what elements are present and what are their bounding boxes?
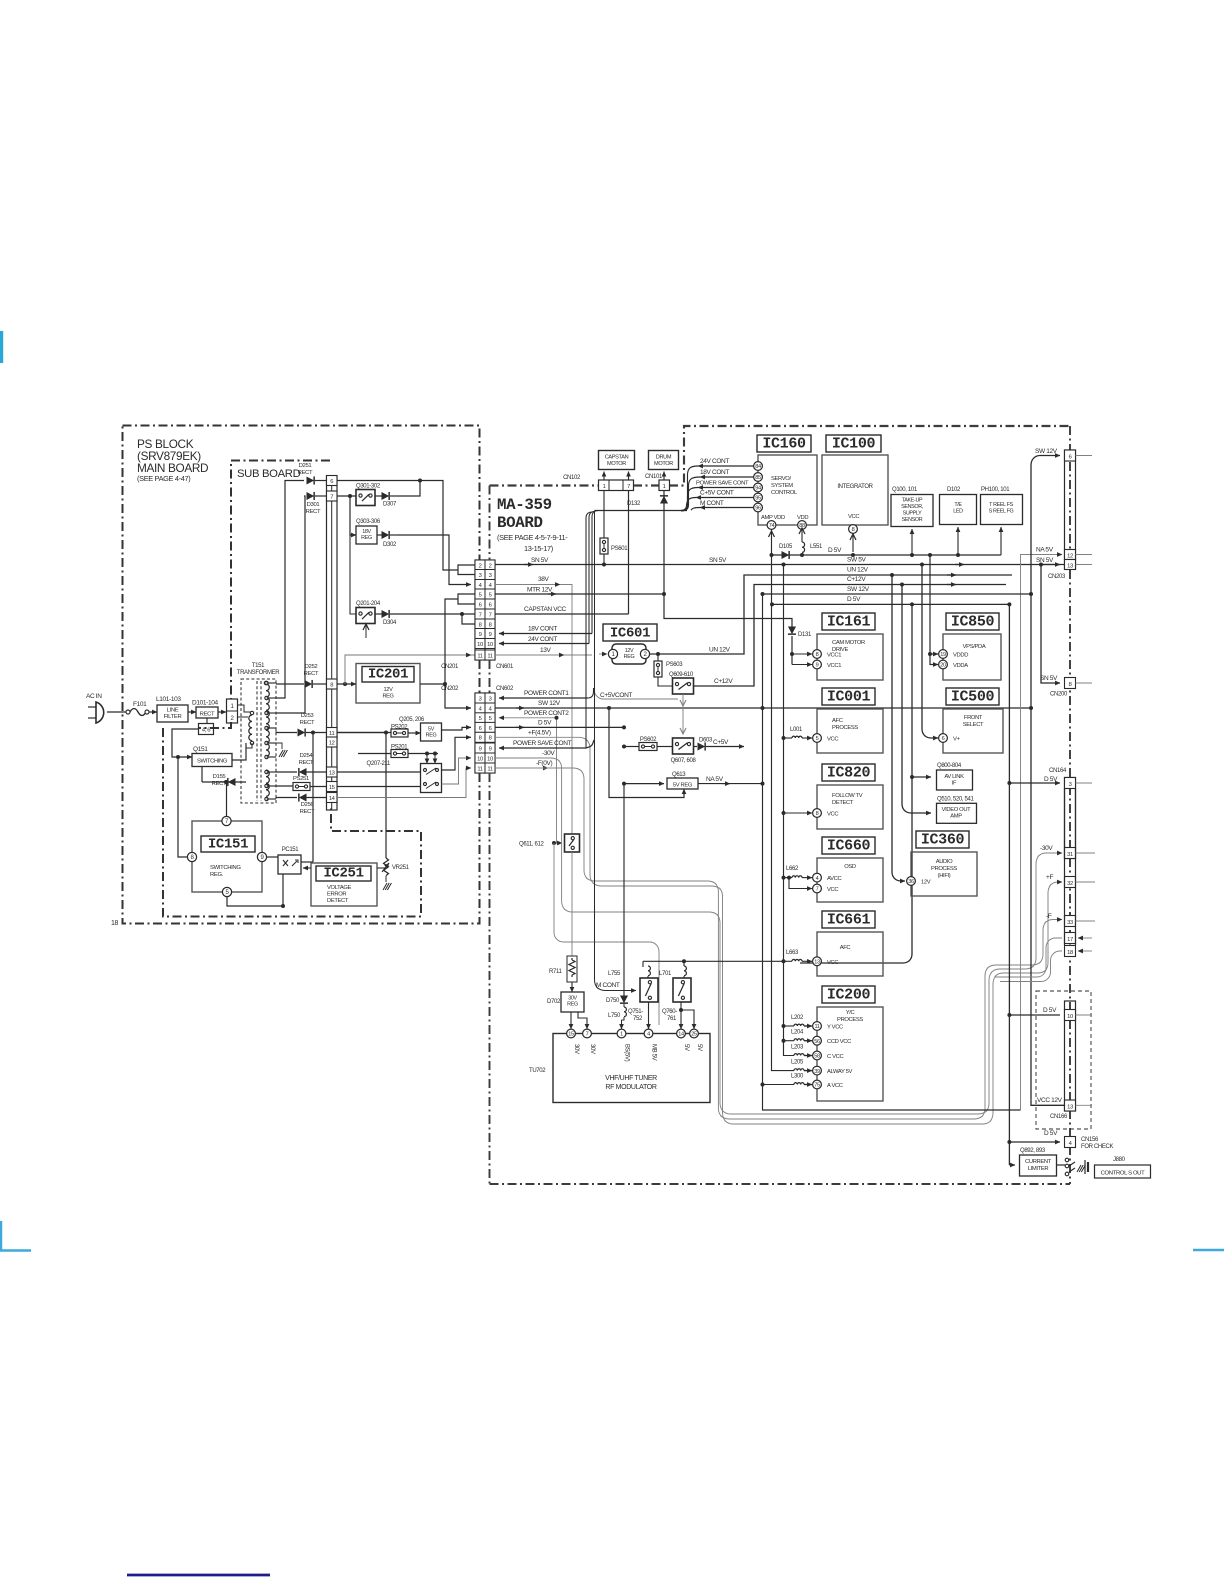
svg-text:1: 1: [663, 484, 666, 490]
stubs CN166: [1076, 1014, 1093, 1016]
connector CN202/CN602: [475, 693, 485, 773]
svg-text:95: 95: [755, 496, 761, 502]
svg-text:FOLLOW TV: FOLLOW TV: [832, 793, 863, 799]
svg-text:CONTROL: CONTROL: [771, 490, 798, 496]
svg-text:L204: L204: [791, 1030, 804, 1036]
svg-text:PS603: PS603: [666, 662, 683, 668]
svg-text:PH100, 101: PH100, 101: [981, 487, 1010, 493]
wire rail to IC151 pin8: [178, 757, 192, 857]
bar pin 11: [327, 728, 338, 738]
CN166 pin 10: [1065, 1010, 1076, 1021]
svg-text:CURRENT: CURRENT: [1025, 1159, 1052, 1165]
svg-text:4, 6: 4, 6: [202, 728, 211, 734]
IC151 pin 5: [222, 887, 231, 896]
svg-text:18: 18: [1067, 950, 1073, 956]
svg-text:25: 25: [691, 1032, 697, 1038]
IC850 pin 20 VDDA: [939, 660, 948, 669]
svg-text:10: 10: [477, 756, 483, 762]
svg-text:18V CONT: 18V CONT: [700, 469, 729, 476]
svg-text:Y VCC: Y VCC: [827, 1025, 843, 1031]
tuner pin 7: [583, 1029, 592, 1038]
svg-text:VCC: VCC: [827, 737, 838, 743]
svg-text:FOR CHECK: FOR CHECK: [1081, 1144, 1114, 1150]
svg-text:NA 5V: NA 5V: [706, 776, 724, 783]
IC001 block: [817, 709, 883, 753]
svg-text:CN166: CN166: [1050, 1114, 1068, 1120]
svg-text:CN202: CN202: [441, 686, 459, 692]
svg-text:C+5V CONT: C+5V CONT: [700, 490, 734, 497]
svg-text:REG: REG: [567, 1002, 578, 1008]
svg-text:39: 39: [814, 1069, 820, 1075]
svg-text:Q151: Q151: [193, 746, 208, 753]
transformer secondary winding upper: [264, 681, 267, 684]
svg-text:REG.: REG.: [210, 872, 224, 878]
svg-text:15: 15: [568, 1032, 574, 1038]
D5V rail down from pin6: [622, 725, 626, 729]
svg-text:AVCC: AVCC: [827, 876, 841, 882]
svg-text:VR251: VR251: [392, 865, 410, 871]
svg-text:58: 58: [814, 1054, 820, 1060]
IC200 pin 39 ALWAY 5V with inductor L205: [813, 1066, 822, 1075]
drum rail down to cam drive: [664, 594, 792, 627]
svg-text:85: 85: [755, 475, 761, 481]
svg-text:D256: D256: [301, 802, 315, 808]
svg-text:IC660: IC660: [827, 838, 871, 855]
svg-text:5V: 5V: [696, 1044, 702, 1051]
svg-text:D307: D307: [383, 502, 397, 508]
svg-text:Q207-211: Q207-211: [367, 761, 391, 767]
bar pin 13: [327, 767, 338, 777]
svg-text:9: 9: [489, 746, 492, 752]
svg-text:C VCC: C VCC: [827, 1054, 843, 1060]
wire D304 to CN201 pin 7 capstan: [390, 613, 475, 615]
svg-text:R711: R711: [549, 969, 563, 975]
Q609 control wire: [682, 694, 684, 734]
svg-text:REG: REG: [426, 733, 437, 739]
svg-text:D155: D155: [213, 774, 227, 780]
IC601 12V REG: [612, 644, 646, 664]
svg-text:IC661: IC661: [827, 912, 871, 929]
svg-text:MB 5V: MB 5V: [651, 1044, 657, 1061]
D5V line into CN164 pin3: [1009, 782, 1060, 784]
IC161 pin 8 VCC1: [813, 650, 822, 659]
IC100 label box: [826, 435, 881, 452]
svg-text:CN102: CN102: [563, 475, 581, 481]
connector CN164 bar: [1065, 778, 1076, 859]
svg-text:8: 8: [489, 622, 492, 628]
wire IC201 out to pins 5-6: [445, 599, 458, 684]
svg-text:12: 12: [329, 741, 335, 747]
IC160 pin 84: [754, 462, 763, 471]
M CONT drop to tuner: [595, 511, 637, 991]
page margin mark cyan left bar: [0, 331, 3, 363]
svg-text:5: 5: [489, 716, 492, 722]
IC661 label box: [822, 911, 875, 928]
wire 18V rail to Q201: [350, 535, 356, 614]
svg-text:36: 36: [908, 879, 914, 885]
IC151 pin 8: [187, 852, 196, 861]
connector CN203 bar: [1065, 450, 1076, 569]
C+12V drop to video amp: [902, 585, 931, 814]
svg-text:D 5V: D 5V: [1044, 776, 1058, 783]
svg-text:D251: D251: [299, 463, 312, 469]
svg-text:9: 9: [479, 746, 482, 752]
IC201 12V regulator block: [356, 664, 420, 704]
svg-text:LIMITER: LIMITER: [1028, 1166, 1049, 1172]
svg-text:RECT: RECT: [298, 470, 313, 476]
svg-text:Q510, 520, 541: Q510, 520, 541: [937, 797, 974, 803]
svg-text:SN 5V: SN 5V: [1040, 675, 1058, 682]
svg-text:MA-359: MA-359: [497, 496, 552, 514]
svg-text:POWER CONT1: POWER CONT1: [524, 690, 569, 697]
connector pins 4 6: [199, 724, 214, 735]
svg-text:75: 75: [814, 1083, 820, 1089]
svg-text:38V: 38V: [538, 576, 550, 583]
svg-text:56: 56: [814, 1039, 820, 1045]
svg-text:C+5V: C+5V: [713, 739, 729, 746]
svg-text:+F(4.5V): +F(4.5V): [528, 730, 551, 737]
svg-text:3: 3: [489, 573, 492, 579]
svg-text:10: 10: [477, 642, 483, 648]
svg-text:RECT: RECT: [306, 509, 321, 515]
svg-text:D105: D105: [779, 544, 793, 550]
svg-text:Q800-804: Q800-804: [937, 763, 962, 769]
svg-text:5V REG: 5V REG: [673, 783, 693, 789]
svg-text:MOTOR: MOTOR: [654, 461, 673, 467]
svg-text:SENSOR: SENSOR: [902, 517, 923, 523]
svg-text:MAIN BOARD: MAIN BOARD: [137, 461, 208, 475]
svg-text:11: 11: [487, 653, 492, 659]
svg-text:VCC1: VCC1: [827, 653, 841, 659]
svg-text:8: 8: [479, 736, 482, 742]
VR251 top rail: [385, 733, 387, 859]
svg-text:L203: L203: [791, 1045, 804, 1051]
tuner pin 4: [644, 1029, 653, 1038]
svg-text:MTR 12V: MTR 12V: [527, 587, 553, 594]
svg-text:TAKE-UP: TAKE-UP: [902, 498, 923, 504]
svg-text:20: 20: [940, 663, 946, 669]
svg-text:VPS/PDA: VPS/PDA: [963, 644, 986, 650]
svg-text:6: 6: [942, 736, 945, 742]
svg-text:BOARD: BOARD: [497, 514, 543, 532]
svg-text:12: 12: [1067, 554, 1073, 560]
svg-text:CN101: CN101: [645, 474, 663, 480]
svg-text:CAM MOTOR: CAM MOTOR: [832, 640, 865, 646]
IC001 label box: [822, 688, 875, 705]
svg-text:L205: L205: [791, 1060, 804, 1066]
wire D302 to CN201 pin 4 38V: [398, 535, 471, 585]
svg-text:AFC: AFC: [832, 718, 843, 724]
svg-text:FRONT: FRONT: [964, 715, 983, 721]
svg-text:4: 4: [816, 876, 819, 882]
IC151 pin 7: [222, 816, 231, 825]
D5V rail to IC850: [930, 555, 938, 665]
svg-text:SW 12V: SW 12V: [538, 700, 561, 707]
svg-text:11: 11: [329, 731, 334, 737]
svg-text:3: 3: [1069, 782, 1072, 788]
svg-text:D101-104: D101-104: [192, 700, 218, 707]
svg-text:9: 9: [479, 632, 482, 638]
svg-text:13: 13: [329, 771, 335, 777]
svg-text:REG: REG: [624, 654, 635, 660]
diode D307: [382, 492, 390, 500]
connector CN166 bar: [1065, 1001, 1076, 1111]
D5V drop to AV link and tuner: [800, 604, 912, 963]
svg-text:6: 6: [489, 602, 492, 608]
svg-text:L202: L202: [791, 1015, 804, 1021]
D5V right rail down: [1008, 604, 1010, 1165]
control s out box: [1095, 1165, 1151, 1178]
SW5V drop to IC500: [922, 565, 938, 739]
svg-text:SUPPLY: SUPPLY: [903, 511, 923, 517]
svg-text:D131: D131: [798, 632, 812, 638]
bar pin 12: [327, 737, 338, 747]
ground at transformer tap: [276, 743, 282, 749]
IC001 pin 5 VCC: [813, 734, 822, 743]
IC151 pin5 wire to PC151: [227, 874, 283, 906]
IC500 block: [943, 709, 1003, 753]
wire bar pin8 to IC201: [337, 683, 356, 685]
MA-359 board dashed border: [490, 484, 599, 486]
svg-text:11: 11: [477, 653, 482, 659]
wire bar11 to VR251 rail: [313, 732, 327, 734]
VCC 12V corner into CN166 pin 13: [1031, 1100, 1065, 1106]
tuner pin 1: [617, 1029, 626, 1038]
svg-text:LINE: LINE: [167, 708, 179, 714]
IC850 block: [943, 634, 1001, 680]
Q303 feedback wire: [367, 535, 415, 556]
svg-text:Q205, 206: Q205, 206: [399, 717, 425, 723]
svg-text:1: 1: [620, 1032, 623, 1038]
svg-text:D 5V: D 5V: [1044, 1130, 1058, 1137]
svg-text:SN 5V: SN 5V: [709, 557, 727, 564]
wire to IC161 pin9: [792, 664, 812, 666]
svg-text:POWER CONT2: POWER CONT2: [524, 710, 569, 717]
svg-text:D603: D603: [699, 738, 713, 744]
svg-text:T151: T151: [252, 663, 265, 669]
svg-text:Q609-610: Q609-610: [669, 672, 694, 678]
svg-text:7: 7: [816, 887, 819, 893]
svg-text:10: 10: [487, 642, 493, 648]
svg-text:FILTER: FILTER: [164, 714, 182, 720]
svg-text:SWITCHING: SWITCHING: [197, 759, 228, 765]
IC360 block: [911, 852, 977, 896]
wire into pin 17: [995, 938, 1062, 977]
svg-text:13: 13: [1067, 564, 1073, 570]
IC200 label box: [822, 986, 875, 1003]
svg-text:CAPSTAN: CAPSTAN: [605, 455, 629, 461]
bar pin 14: [327, 793, 338, 803]
svg-text:MOTOR: MOTOR: [607, 461, 626, 467]
svg-text:2: 2: [479, 563, 482, 569]
svg-text:2: 2: [489, 563, 492, 569]
svg-text:D304: D304: [383, 620, 397, 626]
page margin mark cyan bottom-left corner: [1, 1221, 31, 1251]
svg-text:-F(0V): -F(0V): [536, 760, 553, 767]
drum motor: [649, 451, 679, 470]
IC200 block: [817, 1007, 883, 1101]
svg-text:5: 5: [479, 592, 482, 598]
svg-text:PS601: PS601: [611, 546, 628, 552]
UN 12V line: [656, 652, 660, 656]
svg-text:LED: LED: [953, 509, 963, 515]
wire 4,6 to Q151 rail: [172, 729, 199, 757]
POWER CONT2 drop to Q611: [556, 718, 558, 843]
svg-text:VOLTAGE: VOLTAGE: [327, 885, 352, 891]
IC500 label box: [946, 688, 999, 705]
svg-text:SN 5V: SN 5V: [1036, 557, 1054, 564]
IC160 pin 96: [754, 503, 763, 512]
IC160 pin 85: [754, 473, 763, 482]
svg-text:VDDD: VDDD: [953, 653, 968, 659]
U bracket pins 5-6: [458, 594, 475, 604]
svg-text:17: 17: [1067, 937, 1073, 943]
IC660 block: [817, 858, 883, 902]
svg-text:IC820: IC820: [827, 765, 871, 782]
svg-text:T REEL FS: T REEL FS: [989, 502, 1014, 508]
IC200 pin 56 CCD VCC with inductor L204: [813, 1036, 822, 1045]
svg-text:SENSOR,: SENSOR,: [901, 504, 924, 510]
svg-text:13-15-17): 13-15-17): [524, 544, 553, 553]
svg-text:Q301-302: Q301-302: [356, 484, 381, 490]
svg-text:D302: D302: [383, 542, 397, 548]
IC500 pin 6 V+: [939, 734, 948, 743]
IC820 block: [817, 785, 883, 829]
svg-text:SYSTEM: SYSTEM: [771, 483, 793, 489]
svg-text:11: 11: [477, 766, 482, 772]
svg-text:L001: L001: [790, 727, 803, 733]
IC160 pin 95: [754, 493, 763, 502]
IC160 pin 94: [754, 483, 763, 492]
svg-text:5: 5: [816, 736, 819, 742]
svg-text:VCC: VCC: [827, 960, 838, 966]
svg-text:Q611, 612: Q611, 612: [519, 842, 544, 848]
wire sub pins to transformer: [238, 705, 253, 712]
IC200 pin 58 C VCC with inductor L203: [813, 1051, 822, 1060]
svg-text:SN 5V: SN 5V: [531, 557, 549, 564]
Q751 output to tuner pin 4: [648, 1002, 650, 1029]
svg-text:D702: D702: [547, 999, 561, 1005]
sub board connector bar: [327, 476, 338, 810]
M CONT arrow line: [700, 507, 754, 509]
tuner feed line: [643, 960, 784, 962]
IC161 pin 9 VCC1: [813, 660, 822, 669]
branch to pin 7: [789, 878, 812, 889]
svg-text:6: 6: [479, 726, 482, 732]
svg-text:VHF/UHF TUNER: VHF/UHF TUNER: [605, 1075, 657, 1082]
IC201 output rail: [420, 683, 445, 685]
svg-text:8: 8: [489, 736, 492, 742]
24V CONT riser: [589, 511, 595, 643]
svg-text:D 5V: D 5V: [538, 720, 552, 727]
wire D253 junction down to PC151: [312, 733, 314, 863]
svg-text:5V: 5V: [683, 1044, 689, 1051]
svg-text:11: 11: [814, 1024, 819, 1030]
svg-text:IC360: IC360: [921, 832, 965, 849]
svg-text:31: 31: [1067, 852, 1073, 858]
transformer primary winding: [250, 711, 253, 714]
sub board connector pins 1 2: [227, 699, 238, 723]
svg-text:IC151: IC151: [208, 837, 248, 853]
svg-text:VCC 12V: VCC 12V: [1037, 1097, 1063, 1104]
svg-text:L101-103: L101-103: [156, 696, 181, 703]
IC161 label box: [822, 613, 875, 630]
18V CONT riser: [592, 511, 598, 634]
svg-text:L755: L755: [608, 971, 621, 977]
svg-text:DRUM: DRUM: [656, 455, 672, 461]
rail NA5V/AVCC x762.5: [761, 592, 765, 596]
svg-text:D301: D301: [307, 502, 320, 508]
U bracket pins 7-8: [462, 614, 475, 624]
svg-text:AMP: AMP: [950, 814, 962, 820]
wire Q151 down to D155 line: [201, 767, 203, 783]
svg-text:CN164: CN164: [1049, 768, 1067, 774]
svg-text:INTEGRATOR: INTEGRATOR: [837, 484, 873, 490]
svg-text:AC IN: AC IN: [86, 693, 102, 700]
svg-text:8: 8: [852, 527, 855, 533]
svg-text:CN201: CN201: [441, 664, 459, 670]
connector CN200 pin 8: [1065, 678, 1076, 689]
NA 5V riser to CN203 pin12: [1021, 555, 1054, 1111]
svg-text:Q751-: Q751-: [628, 1009, 643, 1015]
svg-text:L300: L300: [791, 1074, 804, 1080]
svg-text:VCC: VCC: [848, 514, 859, 520]
svg-text:94: 94: [755, 486, 761, 492]
svg-text:NA 5V: NA 5V: [1036, 547, 1054, 554]
transformer core dashed lines: [256, 681, 258, 801]
svg-text:D252: D252: [305, 664, 318, 670]
svg-text:AFC: AFC: [840, 945, 851, 951]
IC850 pin 19 VDDD: [939, 650, 948, 659]
svg-text:7: 7: [479, 612, 482, 618]
svg-text:74: 74: [769, 523, 775, 529]
svg-text:L662: L662: [786, 866, 799, 872]
diode D304: [382, 610, 390, 618]
wire bar14 to CN202 pin 11: [337, 768, 471, 798]
svg-text:7: 7: [586, 1032, 589, 1038]
svg-text:AV LINK: AV LINK: [944, 774, 964, 780]
svg-text:C+5VCONT: C+5VCONT: [600, 692, 632, 699]
svg-text:D254: D254: [300, 753, 314, 759]
svg-text:7: 7: [627, 484, 630, 490]
svg-text:L701: L701: [659, 971, 672, 977]
svg-text:13: 13: [1067, 1105, 1073, 1111]
svg-text:12V: 12V: [384, 687, 394, 693]
svg-text:3: 3: [489, 696, 492, 702]
svg-text:6: 6: [330, 479, 333, 485]
IC360 pin 36 12V: [907, 877, 916, 886]
connector CN201/CN601: [475, 560, 485, 660]
svg-text:CN602: CN602: [496, 686, 514, 692]
transformer T151 dashed box: [241, 679, 276, 803]
13V rail from pin8 net: [345, 655, 475, 684]
IC661 pin 13 VCC: [813, 957, 822, 966]
svg-text:8: 8: [330, 683, 333, 689]
IC661 block: [817, 932, 883, 976]
svg-text:RECT: RECT: [200, 712, 215, 718]
vertical rail amp vdd down to ALWAY5V: [770, 553, 774, 557]
svg-text:D 5V: D 5V: [828, 547, 842, 554]
svg-text:M CONT: M CONT: [700, 500, 724, 507]
IC160 label box: [757, 435, 811, 452]
IC820 label box: [822, 764, 875, 781]
svg-text:RECT: RECT: [299, 760, 314, 766]
IC200 pin 11 Y VCC with inductor L202: [813, 1022, 822, 1031]
svg-text:SWITCHING: SWITCHING: [210, 865, 241, 871]
bar pin 7: [327, 491, 338, 501]
svg-text:M CONT: M CONT: [596, 982, 620, 989]
svg-text:32: 32: [1067, 881, 1073, 887]
